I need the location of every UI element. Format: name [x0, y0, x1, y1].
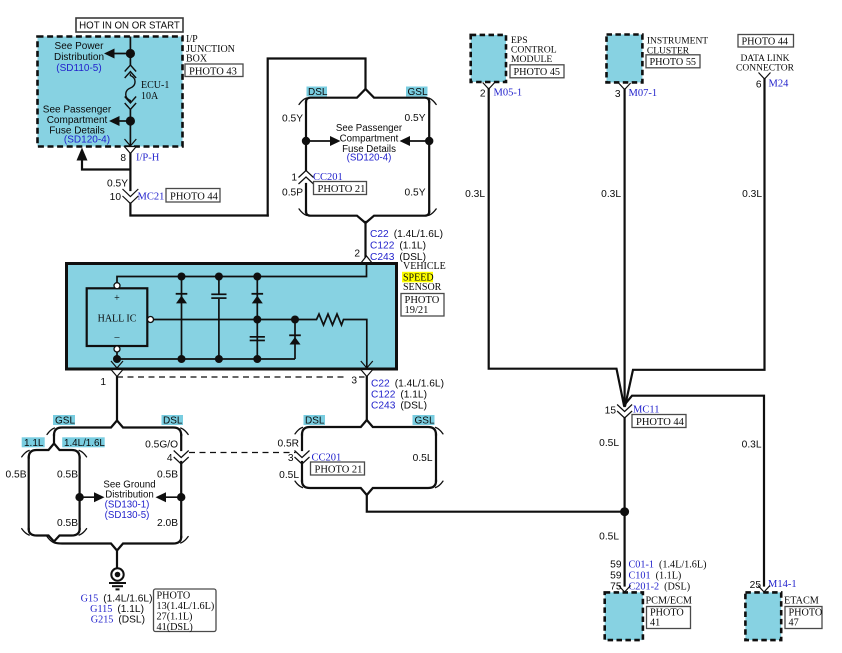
pin 1 exit arrows	[111, 361, 123, 368]
HOT IN ON OR START label box	[76, 18, 183, 32]
svg-text:0.5R: 0.5R	[277, 439, 299, 450]
diode D1 branch	[181, 277, 183, 360]
branch corner ticks (bottom-left splits and merges)	[22, 428, 189, 543]
svg-text:1.4L/1.6L: 1.4L/1.6L	[64, 438, 105, 449]
junction node (fuse details tap)	[126, 116, 135, 125]
svg-text:13(1.4L/1.6L): 13(1.4L/1.6L)	[157, 601, 215, 612]
svg-text:3: 3	[615, 89, 621, 100]
arrow to fuse details note (left)	[306, 140, 334, 142]
svg-text:41: 41	[650, 618, 660, 629]
wire GSL stem	[53, 435, 55, 444]
svg-text:Compartment: Compartment	[47, 115, 108, 126]
pin 2 chevron (EPS)	[483, 83, 495, 90]
svg-text:59: 59	[610, 571, 622, 582]
PHOTO 13/27/41 box	[154, 589, 217, 632]
svg-text:0.5G/O: 0.5G/O	[145, 440, 178, 451]
wire GSL branch	[428, 102, 430, 212]
PHOTO 19/21 box	[401, 294, 444, 317]
wire ETACM branch from junction	[625, 396, 764, 586]
svg-text:0.5Y: 0.5Y	[107, 179, 128, 190]
wire GSL branch (middle)	[435, 435, 437, 482]
branch corner ticks (sensor-bottom split and merge)	[295, 427, 443, 487]
svg-text:4: 4	[167, 453, 173, 464]
wire pin3 down	[366, 377, 368, 420]
svg-text:2.0B: 2.0B	[157, 518, 178, 529]
wire merge to sensor	[364, 222, 366, 264]
vehicle speed sensor box	[67, 264, 397, 370]
svg-text:G115(1.1L): G115(1.1L)	[90, 604, 144, 615]
svg-text:DSL: DSL	[305, 416, 325, 427]
middle rail wire	[154, 319, 315, 321]
svg-text:DSL: DSL	[308, 87, 328, 98]
svg-text:MODULE: MODULE	[511, 54, 553, 65]
svg-text:I/P-H: I/P-H	[136, 153, 160, 164]
PHOTO 47 box	[785, 607, 822, 629]
capacitor C1 branch	[218, 277, 220, 295]
bottom rail wire	[116, 352, 118, 359]
svg-text:G215(DSL): G215(DSL)	[91, 615, 145, 626]
wire merge to ground	[116, 551, 118, 568]
svg-text:0.5L: 0.5L	[599, 438, 619, 449]
ETACM box	[745, 592, 781, 640]
svg-text:0.5L: 0.5L	[413, 453, 433, 464]
tag 1.1L	[22, 437, 45, 447]
wire DSL branch lower (middle)	[301, 462, 303, 481]
svg-text:SENSOR: SENSOR	[403, 282, 442, 293]
tag GSL	[406, 87, 428, 97]
wire DSL branch (left section)	[180, 435, 182, 450]
wire pin8 down	[129, 154, 131, 191]
wire MC21 down and right	[130, 204, 267, 216]
connector 3 chevrons (CC201)	[295, 451, 310, 465]
svg-text:PHOTO 44: PHOTO 44	[742, 37, 789, 48]
pin 6 chevron (DLC)	[759, 73, 771, 80]
svg-text:INSTRUMENT: INSTRUMENT	[647, 37, 708, 47]
svg-text:(SD120-4): (SD120-4)	[347, 153, 392, 164]
wire pin1 down	[116, 377, 118, 421]
junction node PCM	[620, 507, 629, 516]
svg-text:1.1L: 1.1L	[24, 438, 44, 449]
svg-text:PHOTO 45: PHOTO 45	[514, 67, 561, 78]
junction node DSL branch	[177, 493, 185, 501]
wire merge to PCM junction	[367, 495, 625, 512]
merge DSL/GSL (middle)	[302, 481, 436, 495]
svg-text:47: 47	[789, 618, 799, 629]
svg-text:0.5Y: 0.5Y	[405, 113, 426, 124]
svg-text:6: 6	[756, 80, 762, 91]
split GSL/DSL (left)	[54, 421, 181, 436]
connector CC201 chevrons (pin 1)	[299, 171, 314, 185]
svg-text:Compartment: Compartment	[340, 134, 399, 145]
I/P junction box (cyan dashed)	[38, 37, 183, 147]
svg-text:3: 3	[351, 376, 357, 387]
wire EPS down	[489, 89, 624, 406]
pin 2 entry chevron	[361, 256, 373, 264]
connector MC21 chevrons	[123, 189, 139, 204]
arrow to ground note (left)	[80, 496, 98, 498]
top rail wire	[117, 264, 367, 283]
tag 1.4L/1.6L	[62, 437, 104, 447]
PHOTO 55 box	[646, 55, 700, 68]
svg-text:VEHICLE: VEHICLE	[403, 261, 446, 272]
svg-text:0.5B: 0.5B	[57, 470, 78, 481]
svg-text:PHOTO 55: PHOTO 55	[650, 57, 697, 68]
svg-text:PHOTO 21: PHOTO 21	[318, 184, 366, 195]
ground symbol G15	[109, 568, 126, 589]
svg-text:(SD110-5): (SD110-5)	[56, 63, 101, 74]
wire DSL branch upper (middle)	[301, 435, 303, 451]
svg-text:0.5L: 0.5L	[599, 532, 619, 543]
svg-text:10: 10	[110, 192, 122, 203]
svg-text:C101(1.1L): C101(1.1L)	[629, 571, 682, 582]
svg-text:0.3L: 0.3L	[601, 189, 621, 200]
sub-merge 1.1L / 1.4L	[29, 529, 80, 542]
PHOTO 44 box (MC11)	[632, 415, 686, 428]
split DSL/GSL (middle)	[302, 420, 436, 435]
pin 3 label	[348, 375, 360, 385]
PHOTO 45 box	[510, 65, 564, 78]
PHOTO 44 box (MC21)	[166, 189, 220, 203]
dashed link under sensor	[117, 376, 367, 378]
wire arrow to See Passenger Compartment Fuse Details	[116, 120, 130, 122]
junction dots bottom rail	[113, 355, 121, 363]
fuse ECU-1 10A	[125, 65, 136, 110]
junction node 1.4L branch	[75, 493, 83, 501]
svg-text:See Passenger: See Passenger	[336, 123, 403, 134]
pin 3 chevron (cluster)	[619, 83, 631, 90]
tag DSL (middle)	[304, 415, 326, 425]
PCM/ECM box	[605, 592, 643, 640]
svg-text:0.5Y: 0.5Y	[405, 188, 426, 199]
PHOTO 43 box	[185, 64, 243, 77]
svg-text:25: 25	[750, 580, 762, 591]
svg-text:MC21: MC21	[138, 192, 165, 203]
junction dots top rail	[178, 273, 186, 281]
svg-text:(SD130-1): (SD130-1)	[105, 500, 150, 511]
svg-text:GSL: GSL	[415, 416, 435, 427]
pin chevron into ETACM	[758, 586, 770, 593]
svg-text:0.3L: 0.3L	[742, 440, 762, 451]
wire inside junction box	[129, 37, 131, 67]
tag DSL (left)	[162, 415, 184, 425]
wire resistor to pin 3	[346, 320, 367, 370]
svg-text:(SD120-4): (SD120-4)	[64, 135, 110, 146]
svg-text:41(DSL): 41(DSL)	[157, 622, 193, 633]
wire 1.4L branch	[78, 458, 80, 530]
PHOTO 44 box (DLC)	[738, 35, 794, 48]
svg-text:10A: 10A	[141, 91, 159, 102]
svg-text:0.3L: 0.3L	[742, 189, 762, 200]
svg-text:M07-1: M07-1	[629, 88, 658, 99]
svg-text:HOT IN ON OR START: HOT IN ON OR START	[79, 21, 180, 32]
svg-text:GSL: GSL	[55, 416, 75, 427]
svg-text:0.5B: 0.5B	[157, 470, 178, 481]
svg-text:Distribution: Distribution	[54, 52, 104, 63]
tag GSL (middle)	[413, 415, 435, 425]
merge of DSL/GSL branches	[306, 212, 429, 224]
PHOTO 21 box (CC201)	[314, 182, 367, 195]
diode D2 + capacitor C2 branch	[256, 277, 258, 360]
merge GSL/DSL	[54, 537, 181, 551]
svg-text:1: 1	[291, 173, 297, 184]
svg-text:2: 2	[480, 89, 486, 100]
resistor R1	[314, 314, 346, 325]
junction node (power distribution tap)	[126, 49, 135, 58]
svg-text:C22(1.4L/1.6L): C22(1.4L/1.6L)	[371, 379, 444, 390]
sub-split 1.1L / 1.4L-1.6L	[29, 444, 80, 458]
split into DSL/GSL branches	[306, 89, 429, 102]
svg-text:0.5P: 0.5P	[282, 188, 303, 199]
svg-text:27(1.1L): 27(1.1L)	[157, 612, 193, 623]
svg-text:M24: M24	[769, 79, 790, 90]
svg-text:−: −	[114, 332, 120, 344]
svg-text:DATA LINK: DATA LINK	[740, 54, 789, 64]
wire DSL branch lower	[305, 184, 307, 212]
feedback arrow into box bottom	[77, 148, 88, 161]
svg-text:PHOTO 44: PHOTO 44	[636, 417, 685, 428]
tag DSL	[307, 87, 328, 97]
svg-text:0.5B: 0.5B	[57, 518, 78, 529]
svg-text:3: 3	[288, 453, 294, 464]
svg-text:See Power: See Power	[55, 41, 105, 52]
arrow to fuse details note (right)	[406, 140, 429, 142]
svg-text:HALL IC: HALL IC	[98, 314, 137, 325]
feedback branch wire to box	[82, 159, 130, 170]
svg-text:19/21: 19/21	[405, 305, 429, 316]
svg-text:59: 59	[610, 560, 622, 571]
junction dots middle rail	[253, 316, 261, 324]
wire MC11 down to PCM	[623, 418, 625, 586]
svg-text:PHOTO 21: PHOTO 21	[315, 465, 363, 476]
wire 1.1L branch	[28, 458, 30, 530]
connector 4 chevrons	[174, 451, 189, 465]
instrument cluster box	[607, 35, 643, 83]
wire arrow to See Power Distribution	[112, 53, 130, 55]
svg-text:G15(1.4L/1.6L): G15(1.4L/1.6L)	[81, 594, 153, 605]
svg-text:C22(1.4L/1.6L): C22(1.4L/1.6L)	[370, 229, 443, 240]
tag GSL (left)	[53, 415, 75, 425]
connector MC11 chevrons (pin 15)	[617, 405, 632, 419]
svg-text:+: +	[114, 293, 120, 304]
svg-text:PHOTO 43: PHOTO 43	[189, 67, 237, 78]
pin 3 exit arrows	[361, 361, 373, 368]
svg-text:2: 2	[354, 249, 360, 260]
dashed link 4 to 3	[189, 452, 296, 454]
PHOTO 21 box (bottom)	[311, 462, 365, 475]
pin chevron into PCM	[619, 586, 631, 593]
branch corner ticks (middle top split)	[299, 98, 436, 215]
svg-text:C01-1(1.4L/1.6L): C01-1(1.4L/1.6L)	[629, 560, 707, 571]
svg-text:CONNECTOR: CONNECTOR	[736, 64, 795, 74]
svg-text:PHOTO: PHOTO	[157, 591, 191, 602]
svg-text:0.5Y: 0.5Y	[282, 114, 303, 125]
svg-text:M14-1: M14-1	[768, 579, 797, 590]
svg-text:PCM/ECM: PCM/ECM	[646, 596, 692, 607]
wire DLC down	[625, 79, 764, 406]
svg-text:ECU-1: ECU-1	[141, 80, 169, 91]
svg-text:0.5L: 0.5L	[279, 470, 299, 481]
pin 8 chevron (hollow)	[125, 147, 137, 154]
HALL IC box	[87, 288, 148, 346]
svg-text:M05-1: M05-1	[494, 88, 523, 99]
svg-text:8: 8	[120, 153, 126, 164]
wire riser up	[268, 59, 366, 216]
wire DSL branch upper	[305, 102, 307, 170]
svg-text:BOX: BOX	[186, 54, 208, 65]
svg-text:(SD130-5): (SD130-5)	[105, 510, 150, 521]
exit arrow at box bottom	[125, 139, 137, 146]
junction node right	[425, 137, 433, 145]
svg-text:DSL: DSL	[163, 416, 183, 427]
junction node left	[302, 137, 310, 145]
hall ic terminal circles	[114, 283, 120, 289]
PHOTO 41 box	[647, 607, 691, 629]
svg-text:ETACM: ETACM	[784, 596, 819, 607]
svg-text:0.5B: 0.5B	[6, 470, 27, 481]
svg-text:PHOTO 44: PHOTO 44	[170, 192, 219, 203]
svg-text:15: 15	[605, 406, 617, 417]
svg-text:0.3L: 0.3L	[465, 189, 485, 200]
svg-text:1: 1	[100, 377, 106, 388]
svg-text:GSL: GSL	[408, 87, 428, 98]
diode D3 branch	[294, 320, 296, 360]
wire cluster down	[623, 90, 625, 407]
arrow to ground note (right)	[162, 496, 181, 498]
svg-text:See Passenger: See Passenger	[43, 105, 112, 116]
EPS control module box	[471, 35, 506, 82]
